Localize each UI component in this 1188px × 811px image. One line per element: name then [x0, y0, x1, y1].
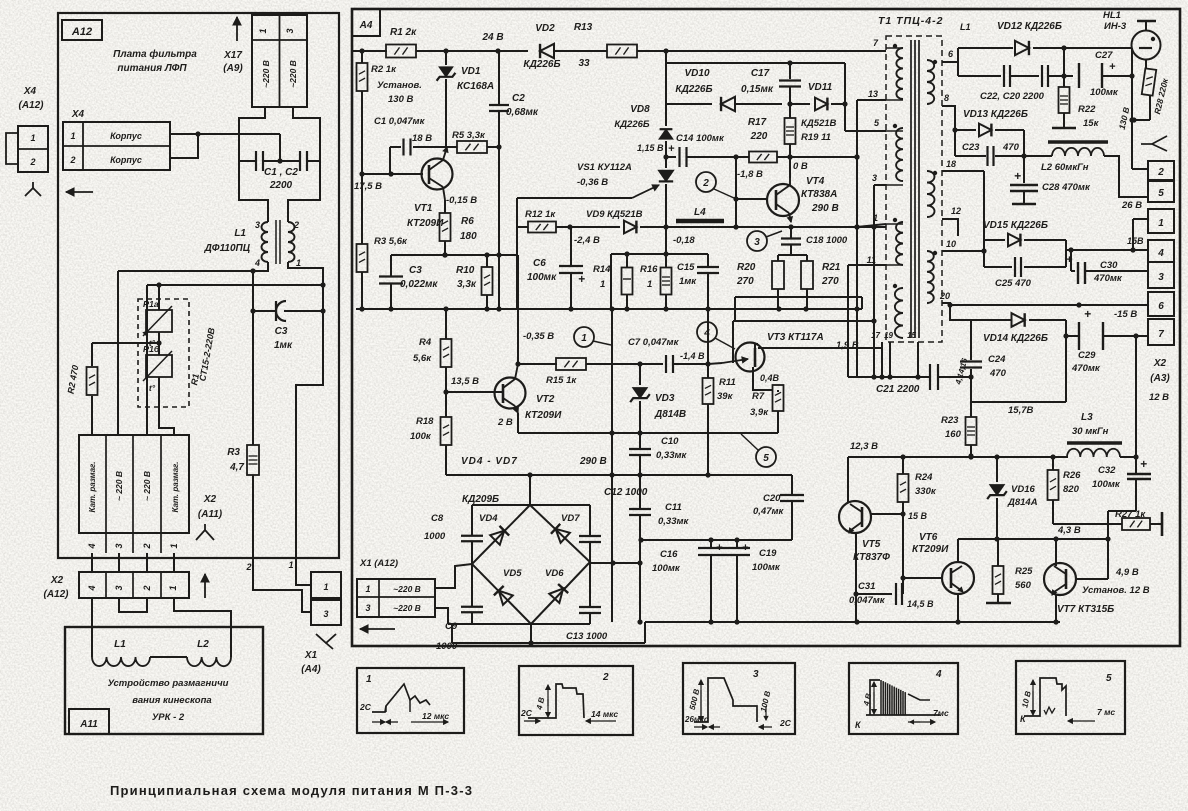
svg-text:3: 3	[285, 28, 295, 33]
svg-text:L1: L1	[960, 22, 971, 32]
svg-text:КТ209И: КТ209И	[525, 410, 562, 421]
bridge outer rectangle bottom edge	[448, 623, 590, 625]
svg-text:Х1 (А12): Х1 (А12)	[359, 558, 398, 569]
svg-text:VD16: VD16	[1011, 484, 1035, 495]
transistor VT4 KT838A	[767, 184, 799, 216]
svg-text:VT1: VT1	[414, 203, 433, 214]
svg-text:0,33мк: 0,33мк	[656, 450, 688, 461]
svg-text:R22: R22	[1078, 104, 1096, 115]
svg-text:(А12): (А12)	[18, 100, 44, 111]
resistor R28 220k vertical	[1145, 59, 1147, 68]
svg-text:VT7 КТ315Б: VT7 КТ315Б	[1057, 604, 1114, 615]
wire X1 pin1 to bridge left vertex	[435, 564, 472, 588]
svg-text:290 В: 290 В	[579, 456, 607, 467]
main 130V drop wire	[1131, 48, 1133, 169]
resistor R7 3.9k	[773, 385, 784, 411]
svg-text:Х1: Х1	[304, 650, 318, 661]
svg-text:С14 100мк: С14 100мк	[676, 133, 725, 144]
wire base rail 17.5V	[362, 173, 423, 175]
svg-text:18 В: 18 В	[412, 133, 432, 144]
svg-text:R12 1к: R12 1к	[525, 209, 556, 220]
svg-text:+: +	[1109, 61, 1116, 73]
R27 terminal bar	[1161, 512, 1164, 536]
circled number 5	[756, 447, 776, 467]
X2 A3 pin box 7	[1148, 319, 1174, 345]
VT3 b1 wire to R7	[753, 367, 772, 390]
vertical x612	[611, 309, 613, 622]
svg-text:24 В: 24 В	[481, 32, 503, 43]
svg-text:5: 5	[1158, 188, 1164, 199]
resistor R19 11 vertical	[789, 104, 791, 118]
wire R1 to VD1 node	[416, 50, 446, 52]
svg-text:С7 0,047мк: С7 0,047мк	[628, 337, 680, 348]
waveform box 3	[683, 663, 795, 734]
wire L3 to C32	[1120, 456, 1136, 458]
svg-text:470: 470	[989, 368, 1007, 379]
label box A4	[352, 9, 380, 36]
svg-text:HL1: HL1	[1103, 10, 1121, 21]
svg-text:0,68мк: 0,68мк	[506, 107, 539, 118]
svg-text:~220 В: ~220 В	[261, 60, 271, 88]
svg-text:~220 В: ~220 В	[288, 60, 298, 88]
C24 rectangle left edge with C24	[970, 320, 972, 360]
svg-text:3: 3	[323, 609, 328, 619]
svg-text:КД521В: КД521В	[801, 118, 837, 129]
label box A11	[69, 709, 109, 734]
svg-text:R15 1к: R15 1к	[546, 375, 577, 386]
svg-text:3: 3	[753, 669, 759, 680]
svg-text:100мк: 100мк	[1090, 87, 1119, 98]
svg-text:3: 3	[114, 585, 124, 590]
svg-text:С31: С31	[858, 581, 875, 592]
svg-text:КД226Б: КД226Б	[523, 59, 560, 70]
svg-text:R6: R6	[461, 216, 474, 227]
resistor R11 39k	[707, 364, 709, 378]
wire VD9 row to VT4	[666, 226, 886, 228]
svg-text:18: 18	[946, 159, 956, 169]
wire R15 row	[517, 255, 519, 364]
VD10 box right edge down to pin5 wire	[844, 63, 846, 131]
svg-text:Установ. 12 В: Установ. 12 В	[1082, 585, 1150, 596]
svg-text:-0,35 В: -0,35 В	[523, 331, 554, 342]
circled number 4	[697, 322, 717, 342]
svg-text:470мк: 470мк	[1071, 363, 1101, 374]
inductor L1 left winding	[262, 222, 269, 262]
wire C32 bottom link	[1108, 510, 1136, 512]
waveform box 5	[1016, 661, 1125, 734]
wire C3 right drop staircase	[296, 285, 323, 558]
svg-text:+: +	[1140, 457, 1147, 471]
zener VD16 D814A	[996, 457, 998, 482]
transistor VT1 KT209I	[422, 159, 453, 190]
svg-text:7мс: 7мс	[933, 708, 949, 718]
wire X17 pin3 down to cap line	[293, 107, 320, 161]
pin3 column vertical	[873, 185, 875, 377]
svg-text:4,9 В: 4,9 В	[1115, 567, 1139, 578]
resistor R26 820	[1052, 457, 1054, 470]
svg-text:ИН-3: ИН-3	[1104, 21, 1127, 32]
wire pin13 column	[856, 100, 858, 377]
svg-text:R18: R18	[416, 416, 434, 427]
lower bus wire y309	[356, 308, 862, 310]
svg-text:С6: С6	[533, 258, 546, 269]
wire VT4 collector to R17 node	[789, 157, 791, 178]
svg-text:VS1 КУ112А: VS1 КУ112А	[577, 162, 632, 173]
connector X1 (A4) pin boxes	[311, 572, 341, 598]
svg-text:R16: R16	[640, 264, 658, 275]
svg-text:С1 0,047мк: С1 0,047мк	[374, 116, 426, 127]
diode VD11 KD521V	[790, 103, 810, 105]
wire cell2 up	[146, 285, 148, 435]
X2 A3 pin box 4	[1148, 240, 1174, 262]
svg-text:R21: R21	[822, 262, 841, 273]
svg-text:КТ838А: КТ838А	[801, 189, 837, 200]
transistor VT2 KT209I	[446, 391, 503, 393]
svg-text:С30: С30	[1100, 260, 1118, 271]
svg-text:VD2: VD2	[535, 23, 555, 34]
resistor R16 1	[665, 254, 667, 268]
svg-text:1: 1	[647, 279, 652, 290]
circled number 2	[696, 172, 716, 192]
wire 290V to bridge top	[529, 475, 531, 505]
wire pin7 to 12V column	[1135, 336, 1137, 474]
transformer core lines	[910, 40, 912, 338]
svg-text:2: 2	[142, 543, 152, 549]
transformer left winding 1	[896, 48, 903, 99]
svg-text:2: 2	[602, 672, 609, 683]
X2 A3 pin box 2	[1148, 161, 1174, 180]
resistor R22 15k	[1059, 87, 1070, 113]
svg-text:VT3 КТ117А: VT3 КТ117А	[767, 332, 824, 343]
thermistor assembly R1 dashed box	[138, 299, 189, 407]
svg-text:VD9 КД521В: VD9 КД521В	[586, 209, 643, 220]
svg-text:1: 1	[70, 131, 75, 141]
thermistor R1b	[158, 332, 160, 355]
transistor VT3 KT117A unijunction	[736, 343, 765, 372]
transformer left winding 4	[895, 288, 903, 338]
bridge outer rectangle top edge	[472, 504, 590, 506]
waveform box 2	[519, 666, 633, 735]
svg-text:Устройство размагничи: Устройство размагничи	[108, 678, 229, 689]
svg-text:R5 3,3к: R5 3,3к	[452, 130, 486, 141]
svg-text:VT2: VT2	[536, 394, 555, 405]
circled number 3	[747, 231, 767, 251]
svg-text:2: 2	[293, 220, 299, 230]
diode VD6	[549, 584, 568, 603]
VS1 gate arrow	[632, 185, 659, 198]
svg-text:С3: С3	[409, 265, 422, 276]
wire C11 column to return	[639, 563, 641, 622]
svg-text:R23: R23	[941, 415, 959, 426]
wire top rail from left border	[352, 50, 387, 52]
wire between L1 L2	[150, 656, 187, 658]
svg-text:R2 1к: R2 1к	[371, 64, 397, 75]
svg-text:3,3к: 3,3к	[457, 279, 477, 290]
transistor VT7 KT315B	[1044, 563, 1076, 595]
svg-text:2С: 2С	[359, 702, 372, 712]
bridge wire cells 3-2	[119, 598, 147, 612]
svg-text:~220 В: ~220 В	[393, 603, 421, 613]
svg-text:(А9): (А9)	[223, 63, 243, 74]
svg-text:С8: С8	[431, 513, 444, 524]
svg-text:3,9к: 3,9к	[750, 407, 769, 418]
svg-text:3: 3	[114, 543, 124, 548]
svg-text:VD7: VD7	[561, 513, 580, 524]
svg-text:-1,4 В: -1,4 В	[680, 351, 705, 361]
wire 290V rail	[446, 474, 792, 476]
wire X17 pin1 down to cap line	[239, 107, 265, 161]
bridge bottom wire	[452, 642, 645, 644]
svg-text:R24: R24	[915, 472, 933, 483]
capacitor C3 1uF (board)	[253, 310, 276, 312]
svg-text:КТ209И: КТ209И	[912, 544, 949, 555]
svg-text:1мк: 1мк	[679, 276, 697, 287]
arrow up at X2 A12	[204, 574, 206, 598]
svg-text:2С: 2С	[779, 718, 792, 728]
svg-text:А11: А11	[79, 719, 98, 730]
svg-text:R7: R7	[752, 391, 765, 402]
svg-text:С12 1000: С12 1000	[604, 487, 648, 498]
svg-text:0,47мк: 0,47мк	[753, 506, 785, 517]
svg-text:VD3: VD3	[655, 393, 675, 404]
svg-text:4: 4	[1157, 248, 1164, 259]
svg-text:13: 13	[868, 89, 878, 99]
svg-text:С17: С17	[751, 68, 770, 79]
svg-text:Д814А: Д814А	[1007, 497, 1038, 508]
svg-text:-1,8 В: -1,8 В	[737, 169, 763, 180]
svg-text:Х2: Х2	[50, 575, 64, 586]
capacitor C2 0.68 vertical	[498, 51, 500, 105]
C24 rectangle top edge with VD14	[971, 319, 1011, 321]
svg-text:290 В: 290 В	[811, 203, 839, 214]
connector X2 (A12) boxes	[79, 572, 189, 598]
svg-text:R1а: R1а	[143, 299, 159, 309]
transformer right winding 2	[927, 171, 934, 217]
wire L2 to pin 5	[1104, 156, 1148, 197]
wire to pin 2	[1132, 168, 1148, 170]
wire cell4 to L1 coil	[91, 598, 93, 657]
svg-text:VD5: VD5	[503, 568, 522, 579]
svg-text:3: 3	[754, 237, 760, 248]
svg-text:1: 1	[288, 560, 293, 570]
svg-text:4: 4	[87, 585, 97, 591]
svg-text:Кат. размаг.: Кат. размаг.	[88, 462, 97, 513]
wire cap line to L1 pin2	[288, 161, 320, 222]
svg-text:VT6: VT6	[919, 532, 938, 543]
winding polarity dots	[893, 44, 897, 48]
svg-text:180: 180	[460, 231, 477, 242]
svg-text:L2: L2	[197, 639, 209, 650]
svg-text:100мк: 100мк	[752, 562, 781, 573]
resistor R14 1	[626, 254, 628, 268]
svg-text:15В: 15В	[1127, 236, 1144, 246]
svg-text:КС168А: КС168А	[457, 81, 494, 92]
junction at corpus node	[195, 131, 200, 136]
svg-text:+: +	[1014, 169, 1021, 183]
diode VD10 KD226B	[666, 103, 712, 105]
svg-text:~ 220 В: ~ 220 В	[114, 471, 124, 501]
svg-text:VD10: VD10	[684, 68, 709, 79]
wire VS1 column to R14 box	[665, 227, 667, 254]
svg-text:4: 4	[703, 328, 710, 339]
waveform box 1	[357, 668, 464, 733]
svg-text:С22, С20 2200: С22, С20 2200	[980, 91, 1045, 102]
wire thermistor rail	[147, 284, 323, 286]
R14 box left edge	[610, 254, 612, 309]
wire C2 node down to bus	[498, 147, 500, 309]
wire R12 box left edge	[516, 198, 518, 309]
resistor R2 1k vertical	[359, 48, 364, 53]
svg-text:Х2: Х2	[203, 494, 217, 505]
svg-text:А4: А4	[359, 20, 373, 31]
wire to pin 1	[1132, 219, 1134, 250]
svg-text:10: 10	[946, 239, 956, 249]
svg-text:VD15 КД226Б: VD15 КД226Б	[983, 220, 1048, 231]
VD15 C25 loop	[983, 171, 985, 267]
svg-text:100к: 100к	[410, 431, 432, 442]
svg-text:ДФ110ПЦ: ДФ110ПЦ	[204, 243, 251, 254]
X2 A3 pin box 1	[1148, 209, 1174, 233]
svg-text:С2: С2	[512, 93, 525, 104]
svg-text:820: 820	[1063, 484, 1080, 495]
svg-text:3: 3	[872, 173, 877, 183]
svg-text:1000: 1000	[424, 531, 446, 542]
connector X2 (A11) cells	[79, 435, 189, 533]
svg-text:С11: С11	[665, 502, 682, 513]
bridge bottom stub	[530, 624, 532, 643]
wires to R20 R21	[778, 254, 807, 256]
12.3V rail	[848, 456, 1068, 458]
svg-text:КТ837Ф: КТ837Ф	[853, 552, 890, 563]
svg-text:Т1 ТПЦ-4-2: Т1 ТПЦ-4-2	[878, 15, 943, 27]
circled number 1	[574, 327, 594, 347]
wire 1 from board to X1 A4 pin1	[296, 558, 311, 585]
svg-text:160: 160	[945, 429, 962, 440]
wire to 24V node	[446, 50, 498, 52]
svg-text:1: 1	[296, 258, 301, 268]
transformer dashed box	[886, 36, 942, 342]
svg-text:2: 2	[702, 178, 709, 189]
X2 A3 pin box 5	[1148, 181, 1174, 202]
VT7 base wire	[1076, 578, 1108, 580]
svg-text:L1: L1	[114, 639, 126, 650]
minus 15V wire pin20 to pin6	[950, 304, 1148, 306]
resistor R1 2k	[386, 45, 416, 58]
bridge right edge segments	[589, 505, 591, 536]
svg-text:470мк: 470мк	[1093, 273, 1123, 284]
resistor R3 4,7 vertical	[252, 271, 254, 445]
main board A4 outline	[352, 9, 1180, 646]
svg-text:R4: R4	[419, 337, 432, 348]
svg-text:Д814В: Д814В	[654, 409, 686, 420]
transformer left winding 3	[896, 222, 903, 265]
svg-text:VT4: VT4	[806, 176, 825, 187]
capacitor C29 470mk	[1066, 335, 1079, 337]
svg-text:33: 33	[578, 58, 590, 69]
wire to VD9	[570, 226, 620, 228]
svg-text:470: 470	[1002, 142, 1020, 153]
svg-text:~ 220 В: ~ 220 В	[142, 471, 152, 501]
svg-text:6: 6	[1158, 301, 1164, 312]
VT5 base wire	[871, 513, 903, 515]
svg-text:26мкс: 26мкс	[684, 715, 709, 724]
svg-text:1: 1	[258, 28, 268, 33]
wire L1 pin4 to left rail	[118, 262, 268, 271]
svg-text:3: 3	[255, 220, 260, 230]
svg-text:Установ.: Установ.	[377, 80, 422, 91]
svg-text:1: 1	[169, 543, 179, 548]
capacitor C17 0.15 on top edge	[787, 60, 792, 65]
wire R26 to R27	[1053, 523, 1122, 525]
svg-text:С28 470мк: С28 470мк	[1042, 182, 1091, 193]
svg-text:Плата фильтра: Плата фильтра	[113, 48, 197, 60]
wire VT4 base from junction	[735, 157, 737, 227]
resistor R6 180 vertical	[444, 200, 446, 213]
capacitor C11 0.33	[639, 475, 641, 508]
svg-text:+: +	[668, 143, 675, 155]
svg-text:2200: 2200	[269, 180, 293, 191]
svg-text:питания ЛФП: питания ЛФП	[117, 63, 187, 74]
svg-text:4,7: 4,7	[229, 462, 244, 473]
svg-text:R3: R3	[227, 447, 240, 458]
svg-text:17,5 В: 17,5 В	[354, 181, 382, 192]
svg-text:R10: R10	[456, 265, 475, 276]
svg-text:12,3 В: 12,3 В	[850, 441, 878, 452]
resistor R23 160	[970, 402, 972, 417]
zener diode VD1 KS168A	[445, 51, 447, 65]
svg-text:7: 7	[1158, 329, 1164, 340]
wire down to VT3 emitter	[732, 321, 734, 363]
VT3 b2 wire	[755, 344, 758, 348]
svg-text:15к: 15к	[1083, 118, 1100, 129]
resistor R15 1k	[518, 363, 557, 365]
waveform box 4	[849, 663, 958, 734]
capacitor C2 (filter)	[263, 160, 300, 162]
svg-text:С32: С32	[1098, 465, 1116, 476]
diode VD5	[494, 586, 513, 605]
svg-text:С27: С27	[1095, 50, 1113, 61]
svg-text:Х4: Х4	[23, 86, 37, 97]
svg-text:4,3 В: 4,3 В	[1057, 525, 1081, 536]
svg-text:С1 , С2: С1 , С2	[264, 167, 298, 178]
svg-text:VD8: VD8	[630, 104, 650, 115]
fork symbol X2 A11	[196, 530, 214, 540]
svg-text:4: 4	[254, 258, 260, 268]
inductor L2 60uH	[1048, 140, 1108, 144]
wire R13 to transformer pin7	[637, 50, 886, 52]
svg-text:15 В: 15 В	[908, 511, 928, 521]
svg-text:Корпус: Корпус	[110, 131, 142, 141]
svg-text:39к: 39к	[717, 391, 734, 402]
svg-text:3: 3	[1158, 272, 1164, 283]
svg-text:5: 5	[1106, 673, 1112, 684]
resistor R21 270	[806, 255, 808, 261]
wire y540 caps rail	[641, 539, 792, 541]
svg-text:0,33мк: 0,33мк	[658, 516, 690, 527]
svg-text:С3: С3	[275, 326, 288, 337]
svg-text:270: 270	[821, 276, 839, 287]
wire bridge bottom up to return rail	[644, 622, 646, 643]
capacitor C25 470	[984, 266, 1012, 268]
svg-text:0,047мк: 0,047мк	[849, 595, 886, 606]
bridge left edge with C8 C9 gaps	[471, 505, 473, 536]
svg-text:-0,15 В: -0,15 В	[446, 195, 477, 206]
wire 2 from board to X1 A4 pin3	[253, 558, 311, 612]
capacitor C27 100mk	[1064, 75, 1073, 77]
resistor R13 33	[607, 45, 637, 58]
capacitor C10 0.33	[639, 433, 641, 448]
degauss unit box URK-2	[65, 627, 263, 734]
